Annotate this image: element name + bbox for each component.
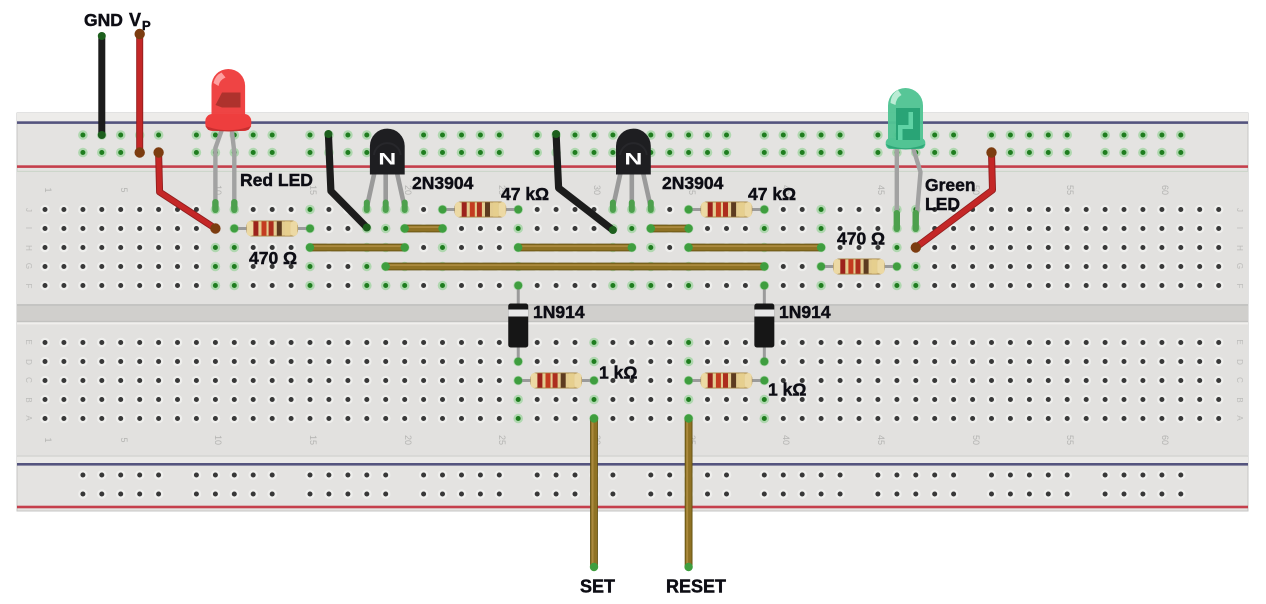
svg-text:F: F bbox=[24, 284, 33, 289]
svg-text:5: 5 bbox=[119, 437, 129, 442]
svg-text:E: E bbox=[1235, 339, 1244, 344]
svg-text:1: 1 bbox=[43, 187, 53, 192]
svg-text:G: G bbox=[1235, 263, 1244, 269]
svg-text:J: J bbox=[1235, 208, 1244, 212]
svg-text:RESET: RESET bbox=[666, 577, 726, 597]
svg-text:50: 50 bbox=[971, 435, 981, 445]
svg-text:25: 25 bbox=[497, 435, 507, 445]
svg-text:A: A bbox=[1235, 415, 1244, 421]
svg-text:SET: SET bbox=[580, 577, 615, 597]
svg-text:15: 15 bbox=[308, 435, 318, 445]
svg-text:30: 30 bbox=[592, 185, 602, 195]
svg-text:55: 55 bbox=[1065, 185, 1075, 195]
svg-text:10: 10 bbox=[213, 435, 223, 445]
svg-text:1: 1 bbox=[43, 437, 53, 442]
svg-text:A: A bbox=[24, 415, 33, 421]
svg-text:D: D bbox=[24, 359, 33, 365]
svg-text:G: G bbox=[24, 263, 33, 269]
svg-text:GND: GND bbox=[84, 10, 123, 30]
svg-text:47 kΩ: 47 kΩ bbox=[748, 184, 796, 204]
svg-text:60: 60 bbox=[1160, 185, 1170, 195]
svg-text:D: D bbox=[1235, 359, 1244, 365]
svg-text:45: 45 bbox=[876, 185, 886, 195]
svg-text:45: 45 bbox=[876, 435, 886, 445]
svg-text:LED: LED bbox=[925, 194, 960, 214]
svg-text:I: I bbox=[24, 227, 33, 229]
svg-text:E: E bbox=[24, 339, 33, 344]
svg-text:55: 55 bbox=[1065, 435, 1075, 445]
svg-text:2N3904: 2N3904 bbox=[662, 173, 724, 193]
svg-text:Green: Green bbox=[925, 175, 976, 195]
svg-text:20: 20 bbox=[403, 435, 413, 445]
svg-text:470 Ω: 470 Ω bbox=[837, 229, 885, 249]
svg-text:V: V bbox=[129, 10, 141, 30]
svg-text:C: C bbox=[24, 377, 33, 383]
svg-text:H: H bbox=[24, 245, 33, 251]
svg-text:470 Ω: 470 Ω bbox=[249, 248, 297, 268]
svg-text:5: 5 bbox=[119, 187, 129, 192]
svg-text:B: B bbox=[1235, 397, 1244, 402]
svg-text:F: F bbox=[1235, 284, 1244, 289]
svg-text:1N914: 1N914 bbox=[533, 302, 585, 322]
svg-text:2N3904: 2N3904 bbox=[412, 173, 474, 193]
svg-text:I: I bbox=[1235, 227, 1244, 229]
svg-text:J: J bbox=[24, 208, 33, 212]
svg-text:P: P bbox=[142, 18, 151, 33]
svg-text:B: B bbox=[24, 397, 33, 402]
svg-text:60: 60 bbox=[1160, 435, 1170, 445]
svg-text:N: N bbox=[378, 150, 396, 169]
svg-text:C: C bbox=[1235, 377, 1244, 383]
svg-text:1 kΩ: 1 kΩ bbox=[768, 380, 806, 400]
svg-text:47 kΩ: 47 kΩ bbox=[501, 184, 549, 204]
svg-text:1N914: 1N914 bbox=[779, 302, 831, 322]
svg-text:1 kΩ: 1 kΩ bbox=[599, 363, 637, 383]
svg-text:N: N bbox=[624, 150, 642, 169]
svg-text:H: H bbox=[1235, 245, 1244, 251]
svg-text:Red LED: Red LED bbox=[240, 170, 313, 190]
svg-text:40: 40 bbox=[781, 435, 791, 445]
